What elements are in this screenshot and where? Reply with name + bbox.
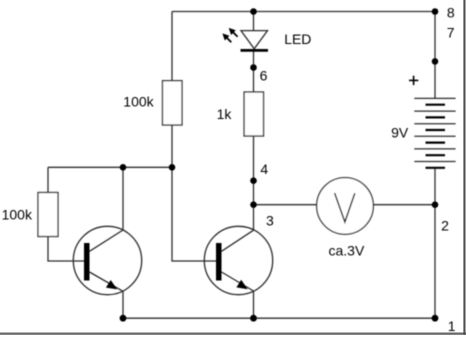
svg-text:LED: LED xyxy=(284,31,311,47)
wire ground rail (node 1) xyxy=(123,317,435,319)
wire node 3 to voltmeter xyxy=(254,204,317,206)
wire left 100k top xyxy=(47,167,49,192)
svg-text:1: 1 xyxy=(448,318,456,334)
wire junction to Q2 base xyxy=(172,167,217,261)
node 3 xyxy=(250,201,257,208)
svg-text:ca.3V: ca.3V xyxy=(329,243,365,259)
svg-text:1k: 1k xyxy=(217,106,233,122)
wire 1k bottom through node 4 and node 3 to Q2 collector xyxy=(253,136,255,231)
node 4 xyxy=(250,177,257,184)
transistor Q2 xyxy=(204,226,272,294)
svg-text:7: 7 xyxy=(447,24,455,40)
junction dot LED anode / top rail xyxy=(250,8,257,15)
svg-text:3: 3 xyxy=(266,212,274,228)
junction dot Q1 emitter / ground xyxy=(120,315,127,322)
wire battery positive from node 8 xyxy=(434,12,436,99)
resistor 100k (left) xyxy=(38,193,58,237)
svg-text:8: 8 xyxy=(447,4,455,20)
wire LED anode xyxy=(253,12,255,31)
svg-text:100k: 100k xyxy=(123,93,154,109)
wire horizontal left net y167 xyxy=(48,166,172,168)
battery B1 9V xyxy=(414,98,455,167)
junction dot Q2 emitter / ground xyxy=(250,315,257,322)
node 6 xyxy=(250,64,257,71)
wire left 100k bottom to Q1 base xyxy=(48,237,85,262)
junction dot 100k upper bottom xyxy=(169,164,176,171)
node 1 ground dot right xyxy=(432,315,439,322)
node 7 xyxy=(432,58,439,65)
svg-text:6: 6 xyxy=(260,68,268,84)
battery + polarity mark xyxy=(409,76,418,85)
wire 100k upper bottom to junction xyxy=(171,125,173,167)
wire voltmeter to node 2 xyxy=(373,204,435,206)
svg-text:2: 2 xyxy=(441,218,449,234)
junction dot Q1 collector xyxy=(120,164,127,171)
svg-text:9V: 9V xyxy=(391,124,409,140)
voltmeter V1 xyxy=(317,178,374,235)
LED D1 xyxy=(220,26,268,51)
svg-text:100k: 100k xyxy=(2,206,33,222)
wire Q2 emitter to ground rail xyxy=(253,291,255,318)
node 2 xyxy=(432,201,439,208)
wire Q1 emitter to ground rail xyxy=(122,291,124,318)
wire battery negative down to ground xyxy=(434,168,436,318)
wire top rail net (node 8) xyxy=(172,11,435,13)
transistor Q1 xyxy=(73,226,141,294)
wire Q1 collector xyxy=(122,167,124,230)
wire 100k upper to top rail xyxy=(171,12,173,81)
resistor 1k xyxy=(244,92,263,136)
wire LED cathode to 1k xyxy=(253,50,255,92)
node 8 xyxy=(432,8,439,15)
svg-text:4: 4 xyxy=(260,161,268,177)
resistor 100k (upper) xyxy=(163,81,183,125)
